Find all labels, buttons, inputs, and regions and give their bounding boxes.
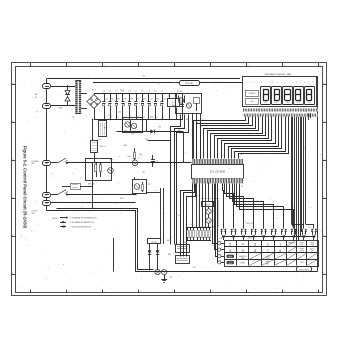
svg-text:3: 3 (254, 242, 256, 246)
svg-text:SET: SET (266, 263, 269, 265)
svg-text:5: 5 (176, 292, 177, 294)
wire L bottom-left pair (47, 209, 318, 272)
svg-text:F1: F1 (143, 76, 145, 78)
svg-text:SP-DR: SP-DR (151, 242, 157, 244)
display digit 4 (294, 87, 304, 105)
wire bundle display right side down (291, 117, 314, 240)
svg-text:0: 0 (229, 249, 231, 253)
wire reg down (183, 132, 185, 164)
svg-text:36: 36 (241, 186, 243, 188)
wire driver leads down (171, 114, 201, 245)
svg-text:SEGMENT: SEGMENT (249, 93, 256, 95)
svg-text:D30: D30 (158, 127, 161, 129)
wire keypad right stubs (309, 113, 311, 120)
svg-text:R37: R37 (151, 117, 154, 119)
scan noise (21, 72, 321, 290)
svg-text:66: 66 (156, 117, 158, 119)
wire rail A (94, 94, 183, 95)
svg-text:R31: R31 (124, 99, 127, 101)
svg-text:7805: 7805 (172, 105, 176, 107)
wire IC to resistor array (193, 183, 206, 227)
svg-text:SW: SW (220, 238, 223, 240)
connector CN1 pin 4 (43, 201, 51, 206)
svg-text:9: 9 (281, 82, 282, 84)
svg-text:7: 7 (248, 66, 249, 68)
svg-text:: 1 W CARBON RESISTOR: : 1 W CARBON RESISTOR (69, 221, 94, 224)
svg-text:R38: R38 (124, 145, 127, 147)
svg-text:2: 2 (68, 66, 69, 68)
svg-text:52: 52 (143, 117, 145, 119)
connector CN1 pin 1 (43, 84, 51, 89)
svg-text:C32: C32 (115, 91, 118, 93)
display tube DS1 outline (243, 77, 317, 107)
svg-text:4: 4 (140, 66, 141, 68)
connector CN1 pin 1b (43, 104, 51, 109)
svg-text:4: 4 (261, 82, 262, 84)
svg-text:TEMP: TEMP (300, 249, 304, 251)
svg-text:6: 6 (279, 249, 281, 253)
svg-text:DS5: DS5 (308, 102, 311, 104)
svg-text:C37: C37 (148, 184, 151, 186)
svg-text:DS1: DS1 (264, 102, 267, 104)
note legend (52, 216, 97, 228)
svg-text:ZNR: ZNR (59, 108, 64, 110)
svg-text:NOTE:: NOTE: (52, 218, 59, 220)
regulator IC-2 (168, 94, 184, 120)
wire top rail long (47, 79, 241, 84)
svg-text:R46: R46 (168, 254, 171, 256)
svg-text:: 1 W METAL FILM RESISTOR: : 1 W METAL FILM RESISTOR (69, 216, 97, 219)
svg-text:T1: T1 (72, 117, 74, 119)
svg-text:X1: X1 (197, 196, 199, 198)
svg-text:C30: C30 (98, 139, 101, 141)
svg-text:3: 3 (104, 292, 105, 294)
svg-text:7-SEGMENT DISPLAY TUBE: 7-SEGMENT DISPLAY TUBE (264, 73, 292, 76)
figure title (vertical) (23, 146, 28, 229)
svg-text:1: 1 (186, 153, 187, 155)
svg-text:4.19MHz: 4.19MHz (204, 204, 211, 206)
keypad function cells (239, 242, 315, 265)
svg-text:7: 7 (312, 82, 313, 84)
label power sw (32, 161, 40, 165)
svg-text:1: 1 (32, 292, 33, 294)
component box E2 (176, 256, 190, 264)
svg-text:DS-DR: DS-DR (177, 91, 183, 93)
label door sw (32, 211, 38, 216)
svg-text:R33: R33 (154, 91, 157, 93)
wire IC to keypad columns staircase (223, 184, 294, 227)
svg-text:1: 1 (279, 242, 281, 246)
svg-text:R35 R36: R35 R36 (88, 184, 95, 186)
svg-text:COOK: COOK (299, 251, 303, 253)
border frame outer (12, 63, 327, 296)
svg-text:KEYBOARD: KEYBOARD (299, 268, 310, 271)
svg-text:R32: R32 (141, 91, 144, 93)
wire row y194 (67, 194, 137, 196)
border zone tick marks (12, 63, 327, 294)
svg-text:C35: C35 (156, 161, 159, 163)
wire speaker feed (149, 269, 151, 270)
IC U1 bottom pin comb (193, 178, 244, 183)
regulator block REG1 (91, 120, 104, 164)
svg-text:Q31: Q31 (131, 134, 134, 136)
svg-text:DS3: DS3 (286, 102, 289, 104)
wire bottom-center verticals (161, 188, 164, 243)
svg-text:R30: R30 (109, 91, 112, 93)
keypad strobe line (222, 236, 315, 238)
svg-text:8: 8 (284, 66, 285, 68)
svg-text:D1-4: D1-4 (92, 90, 96, 92)
svg-text:C35: C35 (163, 99, 166, 101)
diode D7 (148, 244, 151, 271)
svg-text:SW2: SW2 (248, 238, 252, 240)
svg-text:D20: D20 (308, 227, 311, 229)
wire mid y131 (117, 131, 151, 133)
svg-text:C43: C43 (193, 267, 196, 269)
transistor block Q36 (133, 177, 151, 195)
schematic box top edge (93, 82, 242, 84)
svg-text:7: 7 (248, 292, 249, 294)
wire rail B (94, 109, 183, 120)
svg-text:17: 17 (111, 117, 113, 119)
svg-text:18: 18 (240, 154, 242, 156)
svg-text:DISPLAY: DISPLAY (185, 82, 194, 85)
svg-text:HIGH: HIGH (310, 242, 314, 244)
varistor ZNR (59, 86, 71, 110)
svg-text:19: 19 (192, 186, 194, 188)
schematic box lower-left edge (113, 238, 115, 272)
display digit 3 (283, 87, 293, 105)
wire mid y192 (146, 192, 161, 194)
svg-text:4: 4 (300, 82, 301, 84)
svg-text:7: 7 (267, 249, 269, 253)
keypad digit keys row 2 (229, 249, 281, 253)
rail components C30-C34 R30-R33 D5 (103, 91, 166, 132)
display digit 1 (261, 87, 271, 105)
svg-text:5: 5 (229, 242, 231, 246)
svg-text:4: 4 (242, 242, 244, 246)
wire IC to keypad row lines (213, 184, 218, 263)
wire row y203 (51, 202, 136, 204)
svg-text:24: 24 (117, 117, 119, 119)
connector CN1 pin 2 (43, 161, 51, 166)
diode D6 (151, 130, 184, 134)
capacitor block C30 (98, 120, 107, 141)
svg-text:D-1 C5-4050: D-1 C5-4050 (210, 170, 225, 174)
svg-text:C40: C40 (118, 112, 121, 114)
wire left mid vertical (92, 163, 94, 208)
wire left main vertical (46, 86, 48, 211)
speaker SP (155, 269, 173, 279)
switch S2 (51, 190, 68, 196)
keypad diode pairs (221, 227, 317, 241)
svg-text:Q1: Q1 (213, 210, 215, 212)
connector CN1 pin 3 (43, 193, 51, 198)
svg-text:: 1 W SOLID RESISTOR: : 1 W SOLID RESISTOR (69, 226, 92, 228)
misc reference labels (92, 76, 311, 270)
display segment/grid boxes (246, 91, 259, 105)
svg-text:R33: R33 (156, 99, 159, 101)
keypad row lines (224, 247, 318, 260)
svg-text:Q2: Q2 (213, 220, 215, 222)
svg-text:8: 8 (284, 292, 285, 294)
display digit 2 (272, 87, 282, 105)
svg-text:D10-D19: D10-D19 (246, 223, 253, 225)
border frame inner (16, 67, 323, 293)
diode D8 (156, 244, 159, 270)
svg-text:R30: R30 (111, 99, 114, 101)
wire row y163 (67, 162, 192, 164)
IC U1 body (192, 165, 244, 179)
switch S1 (51, 158, 68, 164)
svg-text:9: 9 (242, 249, 244, 253)
svg-text:V1: V1 (305, 111, 307, 113)
svg-text:R40: R40 (186, 119, 189, 121)
svg-text:C33: C33 (128, 91, 131, 93)
component box E1 (176, 245, 190, 253)
sub-box R35 R36 (86, 159, 114, 186)
keypad function keys MEM CLR (227, 255, 235, 265)
svg-text:1: 1 (32, 66, 33, 68)
svg-text:C31: C31 (103, 91, 106, 93)
fuse component F2 (62, 184, 93, 190)
capacitor C35 (151, 155, 159, 167)
svg-text:SW1: SW1 (120, 198, 124, 200)
wire IC left fan to lower components (181, 184, 196, 257)
svg-text:MEMORY: MEMORY (239, 256, 246, 258)
svg-text:2: 2 (68, 292, 69, 294)
ground (161, 275, 167, 283)
svg-text:LINE: LINE (250, 101, 253, 103)
schematic box right edge (317, 76, 319, 272)
crystal X1 block (199, 183, 219, 227)
transformer T1 (72, 81, 88, 120)
svg-text:8: 8 (254, 249, 256, 253)
svg-text:D5: D5 (135, 91, 137, 93)
svg-text:C32: C32 (117, 99, 120, 101)
display driver block Q33 Q34 (176, 91, 202, 113)
display digit 5 (305, 87, 315, 105)
svg-text:R32: R32 (143, 99, 146, 101)
svg-text:C31: C31 (105, 99, 108, 101)
label 7-segment display tube (264, 73, 292, 76)
svg-text:2: 2 (267, 242, 269, 246)
svg-text:6: 6 (212, 292, 213, 294)
junction dots (46, 85, 209, 272)
svg-text:C35: C35 (161, 91, 164, 93)
svg-text:10: 10 (105, 117, 107, 119)
svg-text:C36: C36 (109, 115, 112, 117)
svg-text:OST: OST (300, 244, 303, 246)
keypad column lines (237, 240, 307, 266)
svg-text:IC-1: IC-1 (221, 155, 224, 157)
svg-text:9: 9 (320, 292, 321, 294)
keypad left row connectors (218, 242, 224, 264)
IC U1 top pin comb (193, 159, 244, 164)
svg-text:3: 3 (104, 66, 105, 68)
transistor block Q30 Q31 (123, 118, 143, 136)
svg-text:R34: R34 (128, 156, 131, 158)
speaker driver SP-DR (148, 239, 161, 244)
svg-text:C33: C33 (130, 99, 133, 101)
svg-text:SW: SW (32, 213, 35, 215)
svg-text:PC-1: PC-1 (120, 90, 124, 92)
svg-text:5: 5 (176, 66, 177, 68)
wire mid y140 (148, 140, 172, 142)
svg-text:2: 2 (292, 82, 293, 84)
svg-text:4: 4 (140, 292, 141, 294)
label AC input (35, 93, 38, 99)
wire bundle display to IC (194, 117, 289, 159)
resistor R34 with transistor Q32 (128, 148, 138, 166)
svg-text:R39: R39 (110, 160, 113, 162)
svg-text:D5: D5 (137, 99, 139, 101)
svg-text:CN2: CN2 (183, 242, 186, 244)
display pin numbers row (246, 82, 313, 84)
svg-text:6: 6 (212, 66, 213, 68)
svg-text:SW: SW (32, 163, 35, 165)
keypad digit keys row 1 (229, 242, 281, 246)
svg-text:R41: R41 (178, 130, 181, 132)
svg-text:73: 73 (163, 117, 165, 119)
svg-text:STOP: STOP (300, 262, 304, 264)
svg-text:C41: C41 (142, 172, 145, 174)
svg-text:2: 2 (253, 82, 254, 84)
svg-text:7: 7 (273, 82, 274, 84)
svg-text:DS4: DS4 (297, 102, 300, 104)
svg-text:R45: R45 (167, 240, 170, 242)
bridge rectifier D1-D4 (87, 95, 101, 109)
svg-text:DEF: DEF (311, 251, 314, 253)
label KEYBOARD (297, 267, 312, 272)
resistor array RA1 (187, 228, 212, 241)
keypad matrix outline (225, 241, 319, 267)
svg-text:9: 9 (320, 66, 321, 68)
svg-text:DS2: DS2 (275, 102, 278, 104)
label DISPLAY (180, 81, 200, 86)
display pin comb band (243, 109, 319, 117)
svg-text:C39: C39 (145, 139, 148, 141)
keypad blank diagonal cells (249, 240, 318, 266)
svg-text:Figure 5-2. Control Panel Cir: Figure 5-2. Control Panel Circuit (R-2A5… (23, 146, 28, 229)
svg-text:C34: C34 (148, 91, 151, 93)
wire AC lower lead (51, 105, 75, 107)
wire AC top lead (51, 86, 75, 88)
svg-text:TIME: TIME (266, 258, 270, 260)
svg-text:C34: C34 (150, 99, 153, 101)
svg-text:C42: C42 (178, 215, 181, 217)
